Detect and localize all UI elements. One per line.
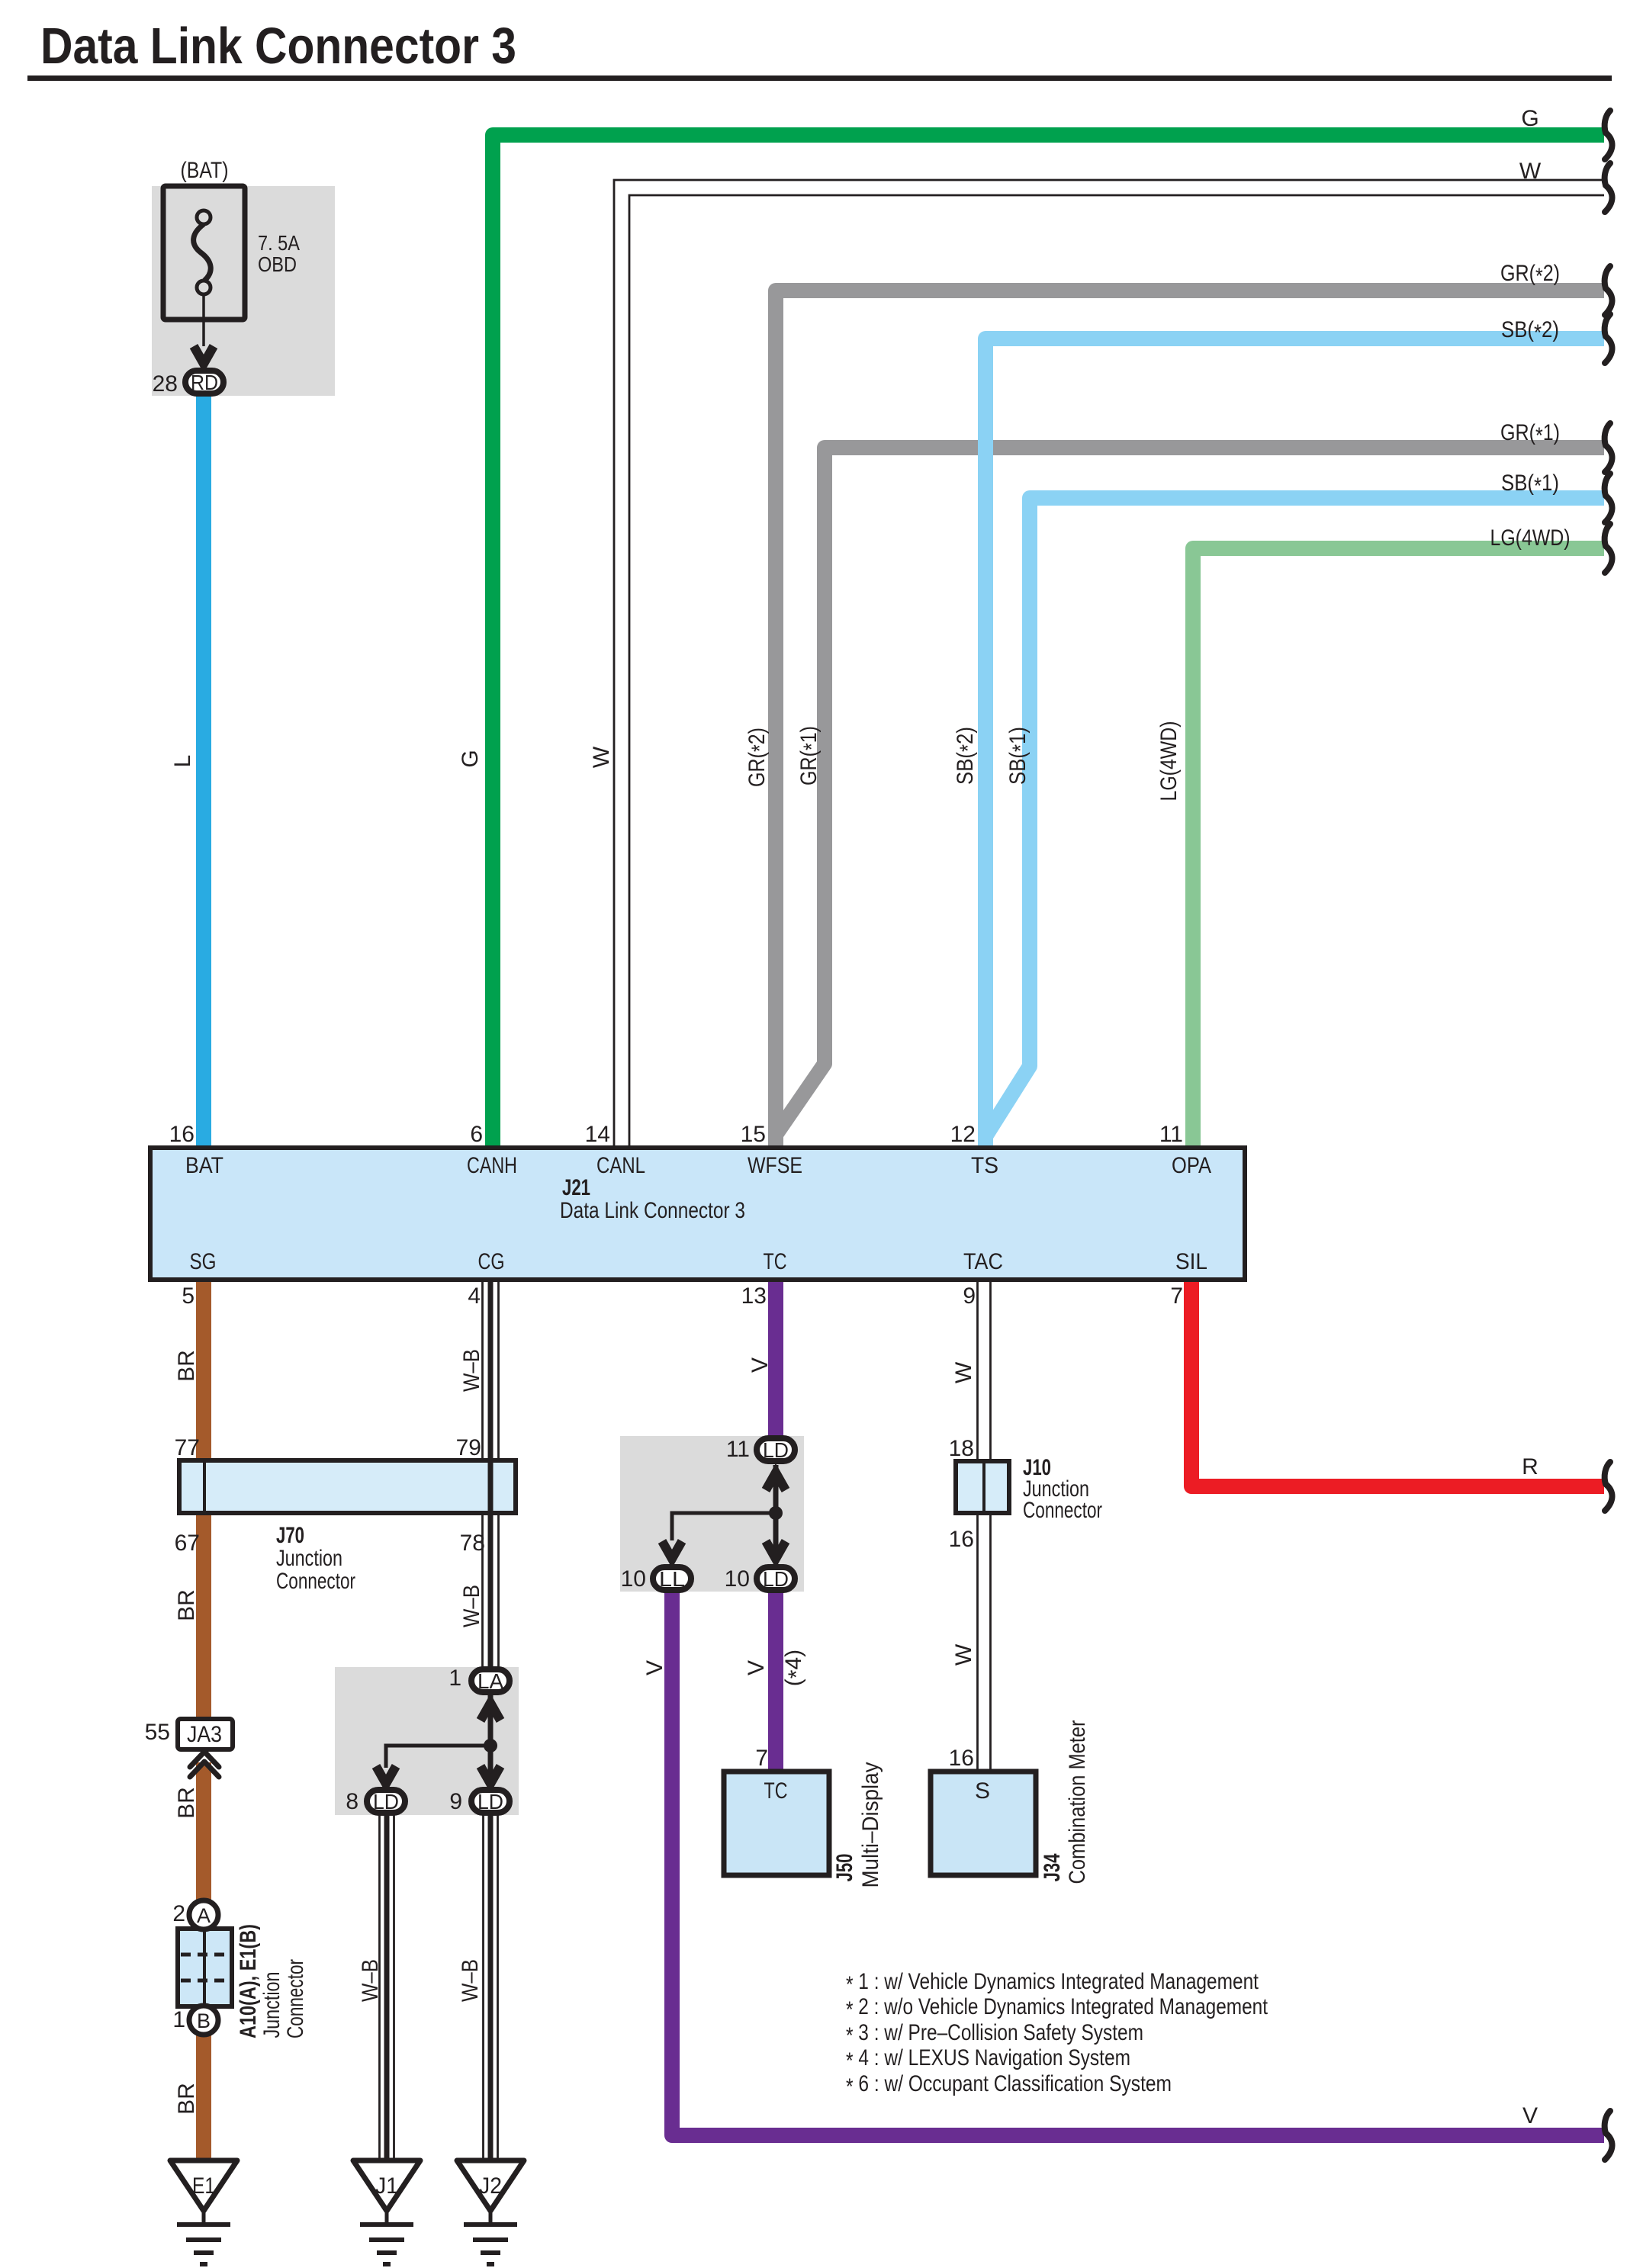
svg-text:W: W	[951, 1361, 976, 1383]
svg-text:W: W	[951, 1643, 976, 1666]
svg-text:BR: BR	[174, 2083, 199, 2115]
svg-text:TS: TS	[971, 1153, 998, 1178]
svg-text:V: V	[748, 1357, 773, 1373]
svg-text:J21: J21	[562, 1175, 590, 1200]
svg-text:13: 13	[741, 1283, 767, 1309]
svg-text:7: 7	[1170, 1283, 1183, 1309]
svg-text:GR(*2): GR(*2)	[744, 728, 773, 787]
svg-text:CANH: CANH	[467, 1153, 517, 1178]
svg-text:G: G	[1521, 106, 1539, 131]
svg-text:SG: SG	[190, 1249, 217, 1274]
svg-text:2: 2	[172, 1901, 185, 1926]
svg-text:7. 5A: 7. 5A	[258, 231, 300, 255]
svg-text:Junction: Junction	[276, 1546, 342, 1571]
svg-text:10: 10	[725, 1566, 750, 1592]
svg-text:W–B: W–B	[458, 1959, 483, 2002]
svg-text:55: 55	[145, 1720, 170, 1745]
svg-text:L: L	[170, 755, 195, 768]
svg-text:16: 16	[169, 1122, 195, 1147]
svg-text:V: V	[1522, 2103, 1538, 2128]
svg-text:* 3 : w/ Pre–Collision Safety: * 3 : w/ Pre–Collision Safety System	[846, 2020, 1143, 2048]
svg-text:SB(*2): SB(*2)	[1501, 317, 1559, 345]
svg-text:TC: TC	[764, 1249, 787, 1274]
svg-text:SB(*1): SB(*1)	[1005, 727, 1034, 785]
svg-text:8: 8	[346, 1789, 359, 1814]
svg-text:OBD: OBD	[258, 252, 297, 276]
svg-text:TAC: TAC	[963, 1249, 1003, 1274]
svg-text:LD: LD	[477, 1790, 503, 1813]
svg-text:J70: J70	[276, 1523, 304, 1548]
svg-text:Connector: Connector	[1023, 1498, 1102, 1523]
svg-text:G: G	[458, 750, 483, 767]
svg-text:S: S	[975, 1778, 990, 1804]
svg-text:BR: BR	[174, 1350, 199, 1382]
svg-text:A10(A), E1(B): A10(A), E1(B)	[236, 1924, 261, 2038]
svg-text:11: 11	[726, 1437, 750, 1462]
svg-text:CANL: CANL	[596, 1153, 645, 1178]
svg-text:W–B: W–B	[358, 1959, 383, 2002]
svg-text:V: V	[744, 1660, 769, 1675]
svg-text:(*4): (*4)	[781, 1650, 809, 1686]
svg-text:7: 7	[755, 1746, 768, 1771]
svg-text:16: 16	[949, 1746, 974, 1771]
svg-text:J2: J2	[479, 2173, 502, 2199]
svg-text:28: 28	[153, 371, 178, 397]
svg-text:Combination Meter: Combination Meter	[1065, 1720, 1090, 1884]
svg-text:* 4 : w/ LEXUS Navigation Syst: * 4 : w/ LEXUS Navigation System	[846, 2045, 1130, 2074]
svg-text:16: 16	[949, 1527, 974, 1552]
svg-text:77: 77	[175, 1435, 200, 1460]
svg-text:Data Link Connector 3: Data Link Connector 3	[560, 1198, 745, 1223]
svg-text:CG: CG	[478, 1249, 505, 1274]
svg-text:14: 14	[585, 1122, 610, 1147]
svg-text:Junction: Junction	[259, 1972, 285, 2038]
svg-text:GR(*1): GR(*1)	[796, 726, 825, 785]
svg-text:BR: BR	[174, 1787, 199, 1819]
svg-text:J34: J34	[1040, 1853, 1065, 1881]
svg-text:LL: LL	[659, 1567, 685, 1591]
svg-text:SB(*2): SB(*2)	[953, 727, 981, 785]
svg-text:12: 12	[950, 1122, 976, 1147]
svg-text:W–B: W–B	[459, 1349, 484, 1392]
svg-text:LD: LD	[763, 1567, 789, 1591]
svg-text:SB(*1): SB(*1)	[1501, 471, 1559, 499]
svg-text:18: 18	[949, 1436, 974, 1461]
svg-text:BAT: BAT	[185, 1153, 223, 1178]
svg-text:4: 4	[468, 1283, 481, 1309]
svg-text:* 6 : w/ Occupant Classificati: * 6 : w/ Occupant Classification System	[846, 2071, 1172, 2099]
svg-text:LD: LD	[373, 1790, 399, 1813]
svg-text:Multi–Display: Multi–Display	[858, 1762, 883, 1888]
svg-text:A: A	[197, 1904, 211, 1927]
svg-text:(BAT): (BAT)	[181, 158, 229, 183]
svg-text:6: 6	[470, 1122, 483, 1147]
svg-text:GR(*2): GR(*2)	[1500, 261, 1560, 289]
svg-text:10: 10	[621, 1566, 646, 1592]
svg-text:67: 67	[175, 1531, 200, 1556]
svg-text:BR: BR	[174, 1589, 199, 1621]
svg-text:LA: LA	[477, 1669, 503, 1693]
svg-text:W: W	[589, 746, 614, 768]
svg-text:J1: J1	[375, 2173, 398, 2199]
svg-text:15: 15	[741, 1122, 766, 1147]
svg-text:* 2 : w/o Vehicle Dynamics Int: * 2 : w/o Vehicle Dynamics Integrated Ma…	[846, 1994, 1268, 2022]
svg-text:W: W	[1519, 159, 1542, 184]
svg-text:* 1 : w/ Vehicle Dynamics Inte: * 1 : w/ Vehicle Dynamics Integrated Man…	[846, 1969, 1259, 1997]
svg-text:SIL: SIL	[1175, 1249, 1207, 1274]
svg-text:B: B	[197, 2009, 211, 2032]
svg-text:W–B: W–B	[459, 1585, 484, 1627]
svg-text:OPA: OPA	[1172, 1153, 1211, 1178]
svg-text:LG(4WD): LG(4WD)	[1156, 721, 1182, 802]
svg-text:JA3: JA3	[187, 1722, 222, 1747]
svg-text:V: V	[642, 1660, 667, 1675]
svg-text:LG(4WD): LG(4WD)	[1490, 525, 1571, 551]
svg-text:Connector: Connector	[276, 1569, 355, 1594]
svg-text:LD: LD	[763, 1438, 789, 1462]
svg-text:TC: TC	[764, 1778, 788, 1804]
svg-text:11: 11	[1159, 1122, 1183, 1147]
svg-text:J50: J50	[832, 1854, 857, 1882]
svg-text:WFSE: WFSE	[748, 1153, 802, 1178]
svg-text:E1: E1	[192, 2173, 215, 2199]
svg-text:Connector: Connector	[283, 1959, 308, 2038]
svg-text:78: 78	[460, 1531, 485, 1556]
svg-text:RD: RD	[191, 371, 218, 394]
svg-text:79: 79	[456, 1435, 481, 1460]
svg-text:9: 9	[449, 1789, 462, 1814]
svg-text:GR(*1): GR(*1)	[1500, 420, 1560, 448]
svg-text:Data Link Connector 3: Data Link Connector 3	[40, 18, 516, 75]
svg-text:1: 1	[449, 1666, 461, 1691]
svg-text:1: 1	[172, 2007, 185, 2032]
svg-text:9: 9	[963, 1283, 976, 1309]
svg-text:5: 5	[182, 1283, 195, 1309]
svg-text:R: R	[1522, 1454, 1539, 1479]
